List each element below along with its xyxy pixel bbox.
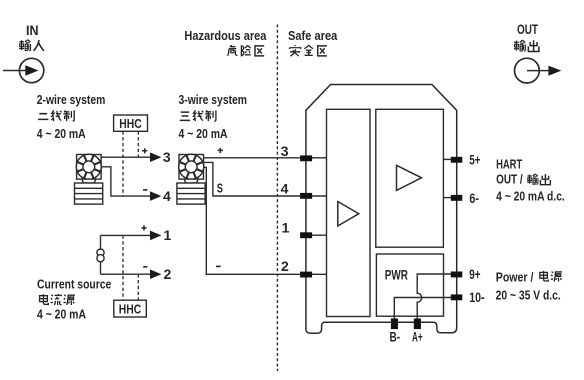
label 二线制 [38, 110, 74, 121]
terminal B- [391, 319, 398, 330]
left channel box [327, 109, 371, 316]
hazardous/safe boundary dashed line [276, 24, 278, 371]
svg-text:A+: A+ [412, 329, 423, 345]
current source vertical wire [100, 235, 102, 274]
arrow to terminal 2 [150, 269, 161, 279]
plus label [141, 225, 146, 230]
svg-text:1: 1 [282, 219, 290, 235]
terminal 5 [451, 157, 463, 163]
wire - to arrow 2 [101, 273, 151, 275]
wire output 5+ stub [443, 158, 451, 160]
svg-text:PWR: PWR [385, 266, 408, 282]
svg-text:10-: 10- [469, 289, 485, 305]
svg-text:2-wire system: 2-wire system [37, 92, 106, 107]
HHC box (current source) [114, 300, 147, 317]
wire + from T2 to device terminal 3 [204, 157, 327, 159]
minus label [143, 266, 147, 268]
HHC dashed connection to - wire [122, 131, 124, 195]
wire terminal1 stub [306, 234, 327, 236]
svg-text:4 ~ 20 mA d.c.: 4 ~ 20 mA d.c. [496, 189, 565, 204]
svg-text:4 ~ 20 mA: 4 ~ 20 mA [179, 126, 229, 141]
arrow to terminal 4 [150, 191, 161, 201]
label 三线制 [180, 110, 216, 121]
right output box [376, 109, 444, 247]
label 输入 [19, 40, 44, 51]
terminal 2 [300, 272, 312, 278]
device outline [306, 85, 457, 334]
op-amp left channel [338, 202, 359, 227]
terminal 4 [300, 193, 312, 199]
svg-text:4: 4 [163, 188, 171, 204]
terminal 9 [451, 272, 463, 278]
svg-text:HHC: HHC [119, 116, 142, 131]
svg-text:3-wire system: 3-wire system [179, 92, 248, 107]
arrow to terminal 1 [150, 231, 161, 241]
svg-text:HART: HART [496, 157, 522, 172]
svg-text:Power /: Power / [496, 270, 534, 285]
plus label [218, 148, 223, 153]
input port symbol [3, 58, 44, 82]
svg-text:2: 2 [164, 266, 172, 282]
plus label [142, 148, 147, 153]
output port symbol [515, 58, 562, 83]
terminal A+ [414, 319, 421, 330]
HHC dashed connection to + wire [137, 131, 139, 156]
HHC box (2-wire) [114, 115, 148, 131]
minus label [143, 189, 147, 191]
HHC dashed connection from wire 2 [137, 274, 139, 300]
svg-text:1: 1 [164, 227, 172, 243]
svg-text:4 ~ 20 mA: 4 ~ 20 mA [37, 126, 86, 141]
wire - from T2 to device terminal 2 [203, 167, 326, 274]
transmitter T2 (3-wire) [177, 154, 205, 204]
svg-text:OUT /: OUT / [496, 172, 523, 187]
svg-text:4: 4 [281, 180, 289, 196]
label 安全区 [289, 45, 326, 56]
svg-text:3: 3 [163, 149, 171, 165]
wire + from T1 to arrow 3 [101, 156, 150, 158]
label 输出 [514, 40, 539, 51]
svg-text:6-: 6- [469, 190, 479, 206]
minus label [216, 265, 221, 267]
transmitter T1 (2-wire) [75, 154, 103, 204]
svg-text:9+: 9+ [469, 266, 480, 282]
svg-text:IN: IN [26, 22, 39, 38]
terminal 3 [300, 155, 312, 161]
svg-text:S: S [217, 180, 223, 195]
current source symbol [97, 249, 104, 256]
svg-text:OUT: OUT [517, 21, 538, 37]
op-amp output [397, 165, 422, 190]
terminal 1 [300, 232, 312, 238]
HHC dashed connection from wire 1 [122, 235, 124, 300]
svg-text:3: 3 [281, 143, 289, 159]
label 电流源 [40, 294, 75, 305]
wire output 6- stub [443, 197, 451, 199]
svg-text:20 ~ 35 V d.c.: 20 ~ 35 V d.c. [496, 288, 561, 303]
svg-text:HHC: HHC [119, 301, 142, 316]
wire S from T2 to device terminal 4 [204, 162, 327, 196]
terminal 6 [451, 195, 463, 201]
label 危险区 [228, 45, 265, 56]
svg-text:Current source: Current source [37, 276, 111, 291]
wire B- to 10- [394, 298, 451, 319]
wire A+ to 9+ with hop [417, 274, 451, 319]
svg-text:2: 2 [281, 258, 289, 274]
PWR box [376, 254, 443, 316]
svg-text:Safe area: Safe area [288, 28, 338, 43]
wire - from T1 to arrow 4 [101, 167, 150, 196]
arrow to terminal 3 [150, 152, 161, 162]
svg-text:Hazardous area: Hazardous area [184, 28, 267, 43]
svg-text:4 ~ 20 mA: 4 ~ 20 mA [37, 307, 86, 322]
svg-text:B-: B- [390, 329, 401, 345]
svg-text:5+: 5+ [469, 152, 480, 168]
wire + to arrow 1 [101, 234, 151, 236]
terminal 10 [451, 294, 463, 300]
